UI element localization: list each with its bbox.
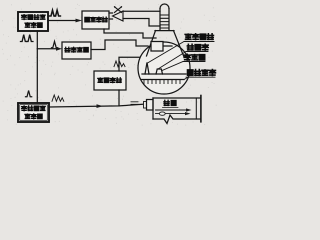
wire trigger down main vertical	[36, 31, 38, 103]
CRT neck right	[168, 9, 170, 31]
X-cross arrow tips	[114, 6, 116, 8]
label 触发信号	[22, 15, 46, 20]
label 伤脉冲 underline	[186, 51, 208, 53]
wire time-circuit bottom staircase to funnel	[104, 29, 156, 38]
wire X-plate top to CRT neck	[123, 10, 160, 12]
flaw/bottom pulse bump on screen	[156, 69, 163, 74]
Y-plate right stub	[163, 45, 172, 47]
wire receiver down to probe line	[118, 90, 120, 106]
test piece right end cap inner line	[195, 98, 197, 119]
deflection symbol triangle	[113, 11, 124, 21]
leader line marker pulse	[184, 77, 189, 80]
box hf-pulse-generator 高频脉冲发生器	[18, 103, 49, 122]
label 标志脉冲 underline	[186, 76, 215, 78]
test piece right end cap outer bold line	[200, 96, 202, 122]
leader line bottom pulse	[162, 62, 183, 71]
box trigger-signal-generator 触发信号发生器	[18, 12, 48, 31]
pulse spikes above trigger-time wire	[49, 10, 55, 16]
box receiver-circuit 接收电路	[94, 71, 126, 90]
CRT neck top arc	[160, 4, 169, 8]
label 发生器	[25, 23, 42, 28]
beam arrow forward in test piece	[156, 109, 188, 111]
label 时间电路	[85, 17, 107, 22]
label 高频脉冲	[22, 106, 46, 111]
wire X-plate lower to CRT neck (step)	[123, 19, 160, 27]
wire trigger to time-circuit	[48, 20, 76, 22]
arrowhead into time-circuit	[76, 19, 83, 23]
marker ticks	[144, 80, 180, 84]
wire junction to marker-circuit	[37, 48, 56, 50]
probe body	[147, 100, 154, 111]
label 试件 with underline	[164, 100, 176, 105]
probe connector	[144, 102, 147, 109]
CRT neck base shoulder	[155, 30, 174, 32]
deflection symbol stubs from time-circuit	[109, 13, 113, 19]
CRT neck left	[159, 9, 161, 31]
pulse spikes below trigger box	[21, 35, 27, 42]
wire marker-circuit to Y-plates (staircase)	[91, 40, 148, 50]
label 接收电路	[98, 78, 122, 83]
label 底脉冲 underline	[183, 61, 205, 63]
wire hf-generator to probe	[49, 104, 144, 107]
couplant dashes before probe	[131, 102, 138, 105]
marker pulse line on screen	[142, 79, 185, 81]
deflection symbol X-cross	[115, 7, 122, 13]
test piece top edge	[153, 97, 200, 99]
pulse spike above hf box	[26, 91, 32, 97]
hf damped-wave symbol after hf box	[52, 95, 64, 101]
flaw defect lens	[159, 112, 165, 115]
Y-deflection plate box in funnel	[151, 42, 163, 52]
pulse spike above marker wire	[52, 41, 58, 47]
arrowhead into marker-circuit	[56, 47, 62, 51]
beam arrow echo with flaw lens	[156, 113, 187, 115]
arrowhead on probe wire	[97, 104, 104, 108]
test piece left edge	[152, 98, 154, 119]
label 发射脉冲 underline	[184, 41, 214, 43]
label 标志电路	[65, 47, 88, 52]
CRT funnel right wall	[174, 31, 185, 57]
box time-circuit 时间电路	[82, 11, 109, 29]
screen baseline trace	[142, 73, 186, 75]
hf damped-wave symbol above receiver	[114, 61, 125, 67]
label 发生器	[25, 114, 42, 119]
leader line flaw pulse	[158, 52, 186, 70]
test piece bottom edge with break	[153, 115, 200, 124]
initial transmit pulse on screen	[145, 63, 149, 75]
CRT gun hatch lines	[161, 15, 169, 28]
leader line transmit pulse	[148, 42, 185, 64]
box marker-circuit 标志电路	[62, 42, 91, 59]
wire receiver up to Y-plates	[119, 57, 146, 71]
CRT screen circle	[138, 42, 190, 94]
scan noise speckle	[2, 4, 216, 125]
CRT funnel left wall	[147, 31, 156, 56]
